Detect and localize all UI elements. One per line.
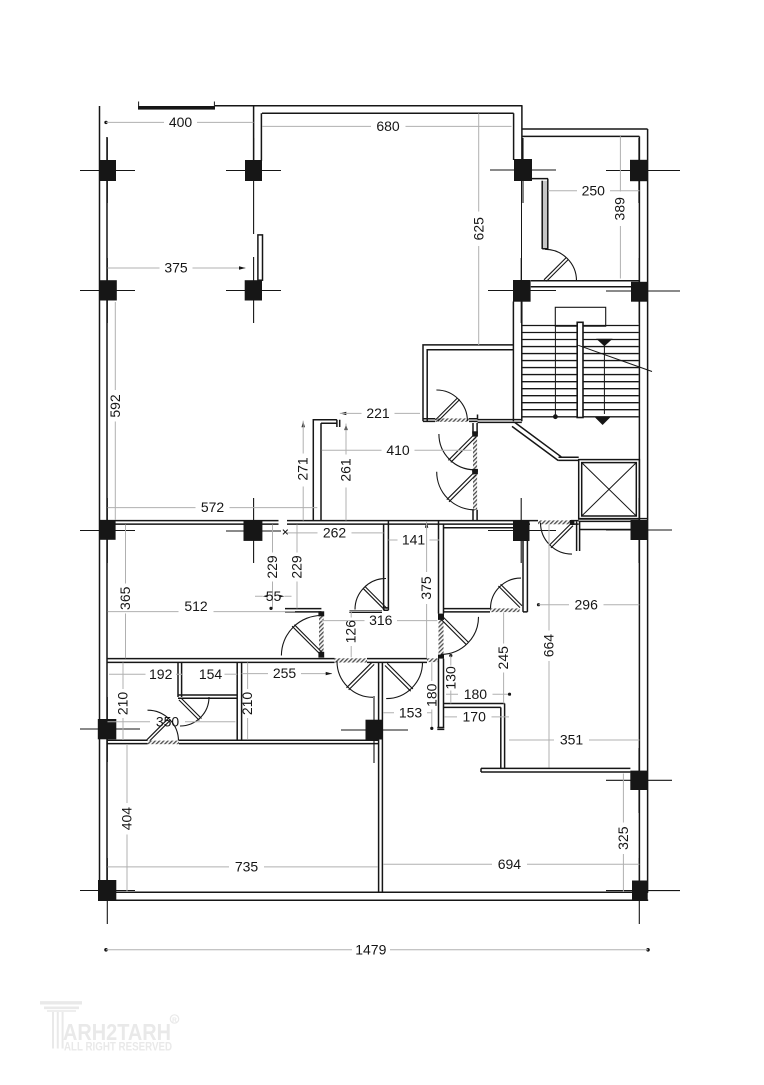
- dimension 572: [108, 499, 318, 515]
- dimension 325 vertical: [615, 774, 631, 893]
- wire: top wall outer line y=105.8 from window to step: [215, 105, 523, 107]
- svg-text:572: 572: [201, 499, 225, 515]
- dimension 271 vertical: [295, 421, 311, 521]
- svg-text:400: 400: [169, 114, 193, 130]
- door D1 room250: leaf and 45-degree arc, hinge (545,280.8): [544, 249, 577, 281]
- wall: WC top inner line y=527.8: [444, 527, 514, 529]
- stairs: break cut line: [578, 345, 652, 371]
- door D6 WC door: hinge (521,608.6): [491, 578, 523, 609]
- wall: bath block top wall y=658.6/662.4 with two thresholds: [107, 658, 438, 662]
- svg-text:126: 126: [343, 620, 359, 644]
- svg-text:ALL RIGHT RESERVED: ALL RIGHT RESERVED: [64, 1042, 172, 1054]
- column A2 with crosshair: [226, 138, 281, 234]
- dimension 350: [108, 713, 236, 729]
- svg-text:512: 512: [184, 598, 208, 614]
- svg-text:325: 325: [615, 826, 631, 850]
- logo: TARH2TARH column icon: [40, 1003, 82, 1049]
- column C4 with crosshair: [606, 498, 672, 563]
- wire: top-right wall band y=129/136.3: [522, 129, 648, 136]
- dimension 404 vertical: [119, 744, 135, 892]
- wire: right exterior wall x=639.5/647.5: [639, 129, 647, 892]
- dimension 255: [242, 665, 333, 681]
- svg-text:351: 351: [560, 732, 584, 748]
- dimension 351: [509, 732, 639, 748]
- door D11 corridor door: hinge (386.2,662.3): [385, 662, 423, 698]
- stairs: upper landing rectangle: [555, 307, 605, 326]
- column B1 with crosshair: [80, 258, 135, 323]
- wall: hook wall of hall entrance (x=313.3/321 up to y=419 then right to 340): [313, 420, 339, 521]
- svg-text:180: 180: [464, 686, 488, 702]
- wall: stub below elevator left edge: [577, 521, 580, 551]
- svg-text:694: 694: [498, 856, 522, 872]
- svg-text:1479: 1479: [355, 941, 386, 957]
- wall: wall below column C3 x=523/527.4: [523, 541, 527, 612]
- node: window stub at column A2: [258, 235, 263, 280]
- svg-text:R: R: [172, 1017, 177, 1024]
- column D1 with crosshair: [80, 697, 140, 762]
- svg-text:229: 229: [289, 555, 305, 579]
- dimension 375 nook vertical: [418, 521, 434, 658]
- dimension 153: [383, 704, 432, 720]
- svg-text:250: 250: [582, 182, 606, 198]
- dimension 170: [445, 709, 510, 725]
- svg-text:55: 55: [266, 588, 282, 604]
- svg-text:410: 410: [386, 442, 410, 458]
- wire: left exterior wall (double line x=99.5/107, y 106-892): [100, 106, 108, 892]
- dimension 229 second vertical: [289, 525, 305, 609]
- svg-text:389: 389: [612, 197, 628, 221]
- stairs: treads: [522, 326, 639, 417]
- node: survey cross marker: [283, 530, 288, 535]
- wall: wall above elevator y=457/460.4: [558, 457, 579, 460]
- dimension 229 first vertical: [264, 525, 280, 611]
- svg-text:229: 229: [264, 555, 280, 579]
- svg-text:625: 625: [471, 217, 487, 241]
- column A3 with crosshair: [490, 138, 556, 203]
- door D7 nook door: hinge (441,616.9): [440, 616, 479, 655]
- column A1 with crosshair: [80, 138, 135, 203]
- wall: closet bottom y=695/698.3: [178, 695, 237, 698]
- dimension 512: [108, 598, 296, 614]
- column B3 with crosshair: [488, 258, 556, 323]
- door D4 hall lower door: hinge (474.7,471.8): [437, 472, 476, 510]
- wall: stair bottom landing wall y=419.6/422.4: [478, 415, 522, 423]
- dimension 694: [383, 856, 639, 872]
- column E4 with crosshair: [606, 858, 680, 924]
- door D2 room-left-of-stairs: hinge (436.4,421): [435, 390, 467, 421]
- svg-text:735: 735: [235, 859, 259, 875]
- wire: top wall inner line y=113.3: [262, 112, 514, 114]
- dimension 389 vertical: [612, 136, 628, 278]
- dimension 130 vertical: [442, 654, 458, 703]
- svg-text:375: 375: [164, 260, 188, 276]
- column C2 with crosshair: [226, 498, 281, 563]
- door D12 closet door: hinge (180,697): [179, 697, 209, 726]
- dimension 1479 overall: [104, 941, 650, 957]
- svg-text:404: 404: [119, 807, 135, 831]
- wall: room250 left wall x=542/548 with cap from column: [531, 179, 548, 249]
- wire: wall drop to column B2 (x=253.5/261.5): [254, 106, 262, 161]
- dimension 365 vertical: [117, 525, 133, 659]
- svg-text:170: 170: [463, 709, 487, 725]
- svg-text:262: 262: [323, 525, 347, 541]
- wall: room250 bottom wall y=280.8/286.8: [531, 281, 640, 287]
- dimension 180 left vertical: [423, 663, 439, 731]
- wall: center vertical wall x=378.6/382.4 y 662-892: [379, 662, 383, 892]
- door D13 bathroom door: hinge (147.5,741.2): [147, 710, 180, 744]
- column E1 with crosshair: [80, 858, 135, 924]
- dimension 316: [322, 612, 438, 628]
- wall: elevator bottom wall y=518.6/521.4: [579, 519, 648, 522]
- dimension 210 right vertical: [239, 663, 255, 740]
- wall: closet right wall x=237.2/241.6: [237, 662, 241, 739]
- dimension 735: [108, 859, 379, 875]
- svg-text:664: 664: [541, 634, 557, 658]
- stairs: center newel wall: [577, 322, 583, 417]
- dimension 261 vertical: [338, 424, 354, 521]
- svg-text:592: 592: [107, 394, 123, 418]
- elevator: shaft box with X brace: [579, 460, 640, 519]
- wire: top-left window lintel bar with end ticks: [138, 102, 215, 110]
- svg-text:154: 154: [199, 666, 223, 682]
- column D4 with crosshair: [606, 748, 672, 813]
- logo: registered mark: [170, 1015, 178, 1024]
- door D3 hall upper door: hinge (474.7,434): [439, 434, 476, 470]
- column A4 with crosshair: [606, 138, 680, 203]
- dimension 126 vertical: [343, 612, 359, 657]
- wall: WC bottom wall y=608.6/611.9 with door opening: [444, 608, 520, 612]
- svg-text:365: 365: [117, 586, 133, 610]
- dimension 250 room: [548, 182, 640, 198]
- dimension 625 vertical: [471, 114, 487, 346]
- door D9 jamb door to room512: hinge (321.4,655.5): [281, 616, 322, 656]
- wall: WC left wall x=438.5/443.5 with door pocket: [437, 521, 444, 730]
- svg-text:271: 271: [295, 457, 311, 481]
- svg-text:192: 192: [149, 666, 173, 682]
- svg-text:141: 141: [402, 532, 426, 548]
- column D2 with crosshair: [341, 696, 408, 763]
- wall: door jamb band x=319/323.6 y 611.9-657.4: [318, 611, 324, 657]
- dimension 192: [109, 666, 182, 682]
- wall: closet divider x=178/181.6: [178, 662, 182, 697]
- dimension 664 vertical: [541, 525, 557, 768]
- wire: wall drop to column B3 (x=513.5/521.8): [514, 106, 522, 160]
- svg-text:261: 261: [338, 458, 354, 482]
- stairs: flight edge line x=555.4: [554, 326, 556, 417]
- dimension 592 vertical: [107, 302, 123, 520]
- svg-text:255: 255: [273, 665, 297, 681]
- wall: hall/room512 top band y=520.6/524.1 with small gap at x 278.5-287: [100, 520, 579, 524]
- svg-text:316: 316: [369, 612, 393, 628]
- door D8 room512 nook door: hinge (386,609.5): [355, 579, 387, 611]
- column B4 with crosshair: [606, 258, 680, 323]
- wire: bottom exterior wall y=892.3/900.2: [100, 892, 649, 900]
- dimension 400 top: [104, 114, 253, 130]
- dimension 680 top: [262, 118, 512, 134]
- wall: room296 bottom band y=768.4/772: [481, 768, 630, 772]
- dimension 262: [287, 525, 384, 541]
- wall: bath block bottom wall y=740.2/743.6: [107, 740, 379, 743]
- dimension 221: [340, 405, 420, 421]
- node: link line between columns B3-C3: [521, 181, 523, 280]
- svg-text:210: 210: [239, 692, 255, 716]
- wall: room-left-of-stairs box (423-513.5, 344.8-421): [423, 345, 513, 422]
- wall: chamfer wall from stair wall to elevator: [512, 423, 561, 461]
- dimension 210 left vertical: [115, 663, 131, 741]
- wall: stairwell left wall x=513.4/521.8: [513, 302, 521, 422]
- dimension 55 with arrows: [255, 588, 292, 604]
- wall: S-wall horizontal y=703.5/707.4: [444, 704, 505, 708]
- door D5 room296 entry: hinge (572,522.6): [541, 520, 575, 554]
- dimension 375 top-left: [108, 260, 246, 276]
- svg-text:680: 680: [376, 118, 400, 134]
- door D10 room255 door: hinge (373,661.3): [337, 661, 374, 697]
- svg-text:221: 221: [366, 405, 390, 421]
- wall: S-wall vertical x=500.8/504.6: [501, 704, 505, 769]
- dimension 141: [388, 532, 439, 548]
- column C1 with crosshair: [80, 498, 135, 563]
- svg-text:296: 296: [575, 596, 599, 612]
- dimension 296: [537, 596, 640, 612]
- wire: door threshold lines y=610.9/612.5 x 349.4-382: [349, 611, 382, 613]
- wire: threshold hatch of room-left door: [435, 418, 469, 421]
- svg-text:245: 245: [495, 646, 511, 670]
- column B2 with crosshair: [226, 257, 281, 323]
- column C3 with crosshair: [488, 498, 556, 563]
- svg-text:210: 210: [115, 692, 131, 716]
- stairs: run start dot: [553, 414, 558, 419]
- svg-text:375: 375: [418, 576, 434, 600]
- wall: room512 extension right wall x=383.6/388.4 y 523-610: [384, 521, 389, 611]
- svg-text:180: 180: [423, 683, 439, 707]
- dimension 410: [322, 442, 472, 458]
- dimension 245 vertical: [495, 613, 511, 704]
- wall: hall right wall x=473/477.1 with two door openings: [472, 423, 478, 521]
- svg-text:153: 153: [399, 704, 423, 720]
- dimension 154: [199, 666, 237, 682]
- svg-text:130: 130: [442, 666, 458, 690]
- wall: wall segment y=608.6/611.9 x 285-321.4: [285, 609, 321, 612]
- wall: room296 top line y=529.5: [580, 529, 631, 531]
- svg-text:350: 350: [156, 713, 180, 729]
- dimension 180 horizontal: [446, 686, 511, 702]
- stairs: run arrow line with arrowheads: [595, 339, 613, 425]
